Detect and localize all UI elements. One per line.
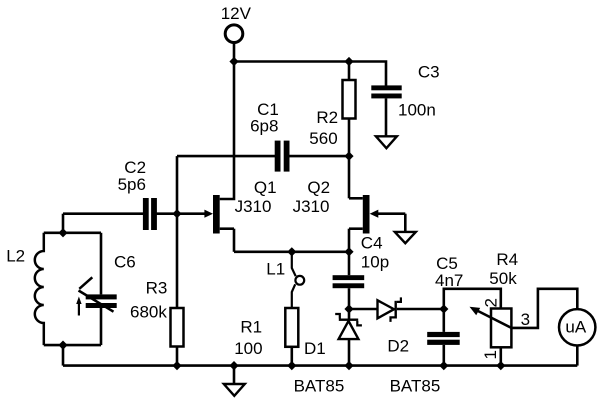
potentiometer R4 — [491, 309, 511, 348]
wire tank to ground rail — [62, 345, 65, 366]
wire C5 node to R4 terminal 2 — [444, 289, 501, 309]
svg-text:680k: 680k — [130, 303, 167, 322]
svg-text:J310: J310 — [235, 197, 272, 216]
junction dot source C4 — [344, 247, 353, 256]
tank top wire — [44, 232, 101, 235]
junction dot rail D1 — [344, 361, 353, 370]
wire gate of Q1 with arrow — [177, 212, 206, 215]
junction dot detector node — [344, 304, 353, 313]
wire meter to rail — [576, 346, 579, 366]
feedback wire through C1 — [177, 155, 275, 158]
transistor Q1 — [213, 195, 220, 234]
wire R4 pin 1 to rail — [499, 347, 502, 365]
svg-text:J310: J310 — [293, 197, 330, 216]
svg-text:50k: 50k — [489, 269, 517, 288]
capacitor C2 — [63, 212, 143, 215]
ground under C3 — [376, 136, 397, 148]
capacitor C3 — [371, 85, 401, 90]
power terminal 12V — [225, 25, 243, 43]
capacitor C1 — [275, 141, 281, 172]
svg-text:Q1: Q1 — [254, 178, 277, 197]
svg-text:uA: uA — [565, 318, 586, 337]
junction dot tank top — [58, 228, 67, 237]
junction dot source L1 — [287, 247, 296, 256]
svg-text:D1: D1 — [304, 339, 326, 358]
svg-text:C6: C6 — [114, 253, 136, 272]
svg-text:12V: 12V — [221, 4, 252, 23]
diode D2 — [349, 308, 378, 311]
svg-text:R2: R2 — [316, 108, 338, 127]
wire Q2 gate to ground with arrow — [377, 212, 405, 215]
junction dot gate node — [172, 209, 181, 218]
ground at Q2 gate — [395, 232, 416, 243]
junction dot rail C5 — [439, 361, 448, 370]
svg-text:1: 1 — [481, 350, 500, 359]
meter uA — [559, 309, 595, 345]
svg-text:560: 560 — [309, 129, 337, 148]
junction dot C5 top — [439, 304, 448, 313]
wire wiper to meter — [511, 289, 577, 328]
wire 12V down through Q1 drain — [220, 42, 234, 199]
svg-text:Q2: Q2 — [307, 178, 330, 197]
wire L1 with tap loop — [292, 252, 296, 276]
resistor R1 — [285, 308, 298, 347]
common source rail — [234, 251, 349, 254]
C6 trimmer arrow diagonal — [79, 291, 114, 312]
junction dot rail R2 — [344, 57, 353, 66]
svg-text:4n7: 4n7 — [435, 271, 463, 290]
transistor Q2 — [363, 195, 370, 234]
R4 wiper arrow — [478, 311, 511, 328]
ground symbol bottom — [224, 384, 245, 396]
junction dot rail ground — [229, 361, 238, 370]
svg-text:100: 100 — [234, 339, 262, 358]
junction dot 12V rail — [229, 57, 238, 66]
svg-text:L1: L1 — [266, 260, 285, 279]
wire corner C2 to tank — [62, 214, 65, 233]
svg-text:C3: C3 — [418, 63, 440, 82]
resistor R3 — [176, 214, 179, 308]
variable capacitor C6 — [100, 233, 103, 295]
svg-text:D2: D2 — [387, 337, 409, 356]
ground rail bottom — [63, 364, 577, 367]
junction dot rail R4 — [496, 361, 505, 370]
resistor R2 — [348, 62, 351, 81]
junction dot rail R3 — [172, 361, 181, 370]
svg-text:2: 2 — [482, 298, 501, 307]
diode D1 — [348, 309, 351, 319]
C6 trimmer T-bar — [79, 277, 92, 289]
svg-text:3: 3 — [521, 310, 530, 329]
wire rail to bottom ground symbol — [233, 366, 236, 384]
svg-text:R1: R1 — [240, 318, 262, 337]
junction dot tank bottom — [58, 341, 67, 350]
capacitor C4 — [348, 252, 351, 275]
svg-text:5p6: 5p6 — [118, 175, 146, 194]
inductor L2 — [35, 233, 44, 345]
wire riser gate node to C1 — [176, 156, 179, 214]
capacitor C5 — [442, 309, 445, 332]
top supply rail wire — [234, 62, 386, 87]
junction dot rail R1 — [287, 361, 296, 370]
tank bottom wire — [44, 344, 101, 347]
coil L1 tap loop — [295, 276, 304, 285]
svg-text:L2: L2 — [6, 247, 25, 266]
svg-text:BAT85: BAT85 — [390, 377, 441, 396]
svg-text:BAT85: BAT85 — [294, 377, 345, 396]
junction dot C1 R2 Q2drain — [344, 152, 353, 161]
C6 small up arrow — [78, 302, 80, 316]
svg-text:10p: 10p — [361, 253, 389, 272]
svg-text:100n: 100n — [398, 101, 436, 120]
svg-text:R3: R3 — [146, 279, 168, 298]
svg-text:C4: C4 — [361, 234, 383, 253]
svg-text:R4: R4 — [496, 250, 518, 269]
svg-text:6p8: 6p8 — [250, 117, 278, 136]
